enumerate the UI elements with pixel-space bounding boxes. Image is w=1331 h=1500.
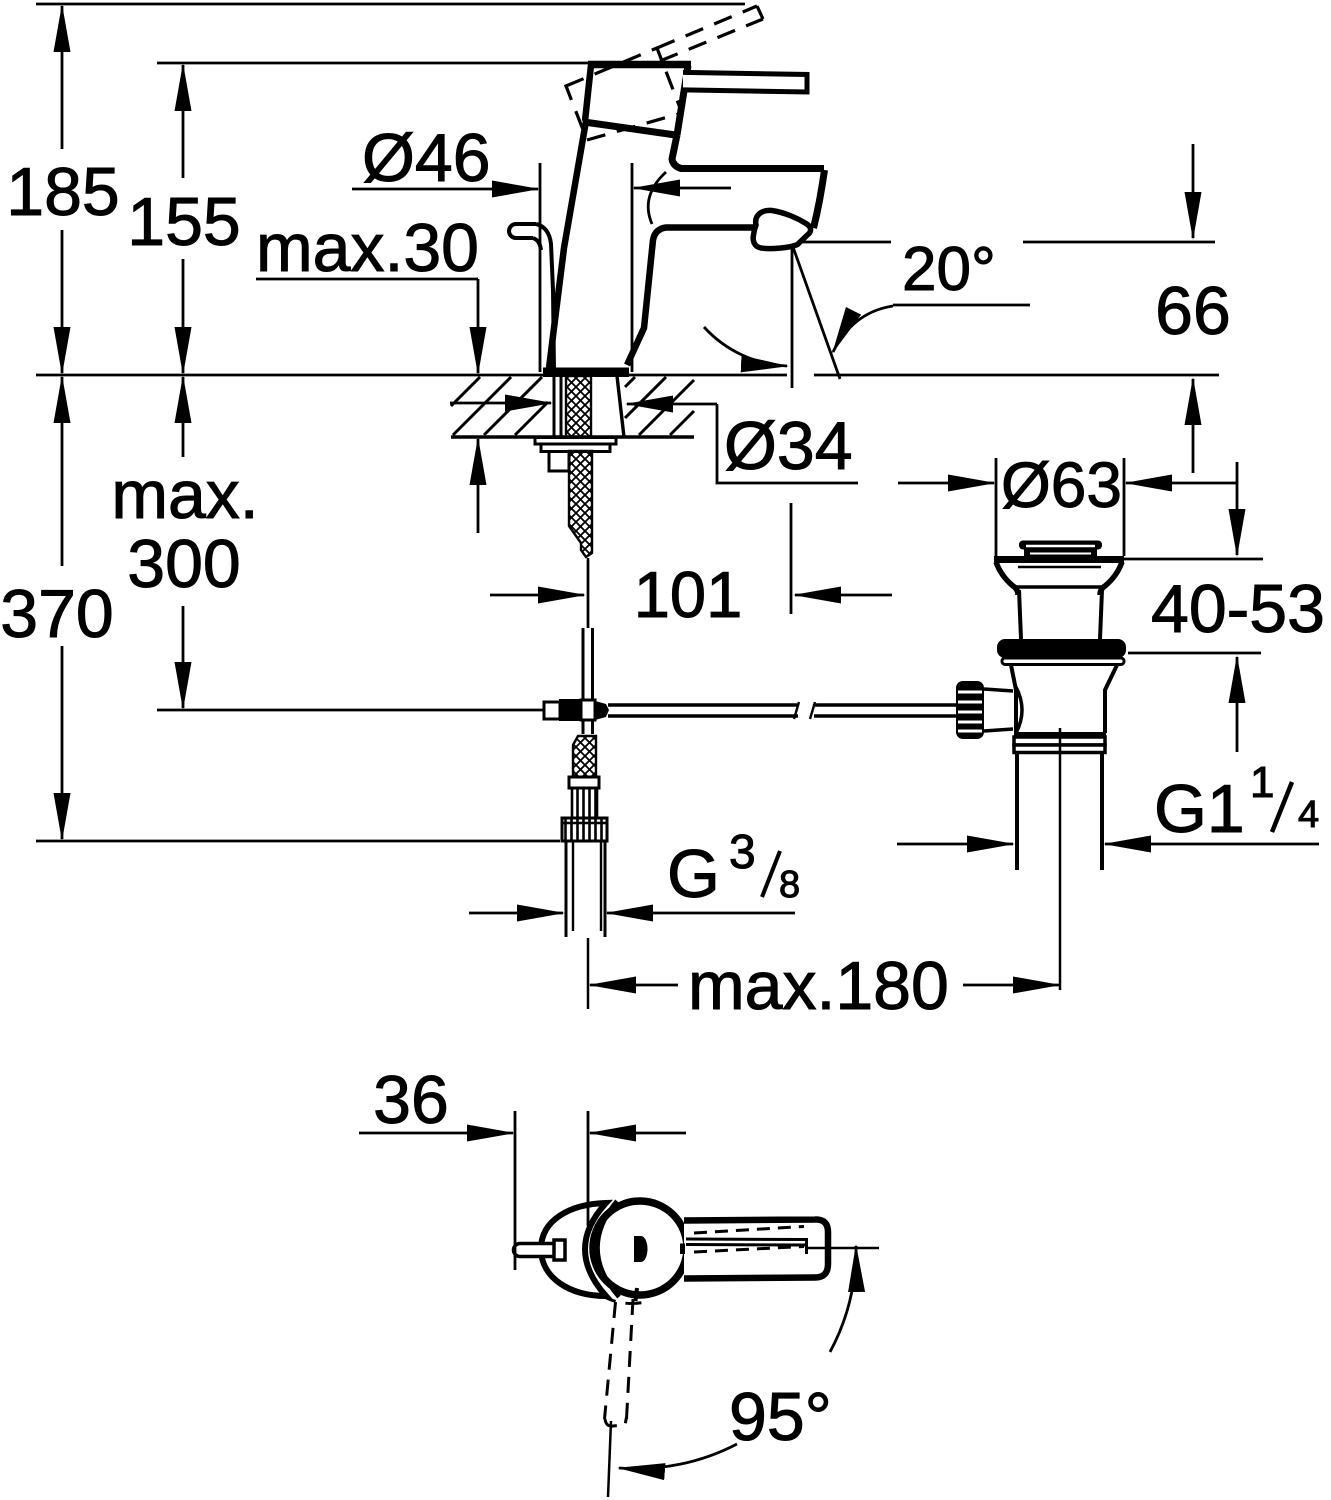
- supply pipe below nut: [566, 841, 605, 1009]
- horizontal pop-up rod left part: [608, 702, 799, 719]
- svg-text:20°: 20°: [902, 235, 996, 304]
- top view body: [541, 1203, 606, 1296]
- faucet body right edge and spout top: [672, 135, 825, 228]
- svg-text:8: 8: [779, 864, 800, 906]
- drain tail pipe: [1017, 728, 1102, 990]
- pop-up waste push button: [1019, 541, 1102, 558]
- rubber seal ring: [997, 639, 1126, 658]
- hose end reference line: [157, 709, 544, 712]
- svg-text:95°: 95°: [729, 1379, 832, 1455]
- svg-text:max.: max.: [111, 457, 258, 533]
- svg-text:3: 3: [729, 826, 756, 879]
- hose center line: [587, 560, 590, 628]
- dimension diameter 34: [450, 403, 858, 484]
- lever handle side view: [683, 72, 807, 92]
- lever center line extension: [608, 1248, 879, 1497]
- braided flex hose below deck: [569, 451, 592, 557]
- dimension diameter 46: [352, 120, 731, 372]
- top view lever: [684, 1219, 828, 1278]
- faucet head cartridge housing: [584, 65, 691, 136]
- top view joint arc: [597, 1201, 619, 1297]
- dimension G 3/8: [469, 826, 800, 913]
- faucet body left edge: [549, 121, 586, 368]
- bottom reference line 370: [36, 840, 560, 843]
- mounting stud: [549, 452, 569, 472]
- dashed lever raised position: [566, 6, 763, 140]
- pull rod tube: [583, 628, 593, 734]
- dimension 155: [127, 65, 240, 373]
- pop-up rod knurled knob: [956, 681, 984, 739]
- svg-text:40-53: 40-53: [1151, 571, 1325, 647]
- dimension 95 degrees arc: [619, 1246, 856, 1469]
- faucet base flange on counter: [543, 368, 629, 378]
- pop-up waste neck: [1019, 590, 1102, 639]
- drain coupling rings: [1014, 737, 1105, 753]
- svg-text:4: 4: [1298, 794, 1319, 836]
- counter top line: [36, 374, 1219, 377]
- pull rod knob above deck: [509, 224, 554, 370]
- pop-up valve body: [1011, 665, 1117, 734]
- spout root fillet curve: [648, 172, 666, 224]
- hose collar: [569, 777, 599, 788]
- deck cross-section hatched right block: [625, 377, 694, 435]
- dimension 101: [490, 503, 892, 631]
- reference line top of body 155: [157, 62, 592, 65]
- top view temperature pin: [514, 1240, 566, 1260]
- svg-text:1: 1: [1250, 758, 1274, 807]
- svg-text:G: G: [667, 836, 720, 912]
- top view lever inner lines: [686, 1227, 807, 1255]
- hose knurled coupling: [572, 788, 597, 818]
- knob to body connector: [984, 689, 1013, 731]
- svg-text:Ø34: Ø34: [724, 408, 853, 484]
- dimension G1 1/4: [897, 758, 1319, 847]
- svg-text:max.180: max.180: [688, 948, 949, 1024]
- pull rod through deck: [554, 376, 561, 437]
- svg-text:max.30: max.30: [256, 210, 479, 286]
- dimension 185: [6, 6, 119, 373]
- svg-text:101: 101: [634, 558, 742, 631]
- dimension max.30 deck thickness: [256, 210, 479, 533]
- dimension 20 degrees spout angle: [704, 235, 1215, 388]
- pop-up waste top flange: [994, 560, 1124, 596]
- threaded shank cone right edge: [617, 376, 624, 437]
- deck cross-section hatched left block: [451, 377, 548, 435]
- svg-text:66: 66: [1155, 273, 1231, 349]
- dimension max.300: [111, 377, 258, 708]
- aerator nozzle: [753, 210, 810, 248]
- svg-text:300: 300: [127, 526, 240, 602]
- G3/8 connection nut: [562, 818, 607, 841]
- svg-text:36: 36: [373, 1062, 449, 1138]
- braided hose through deck: [566, 376, 591, 437]
- flange ring under seal: [1002, 658, 1124, 665]
- dimension 40-53: [1117, 462, 1325, 752]
- horizontal pop-up rod right part: [810, 702, 958, 719]
- svg-text:370: 370: [0, 576, 113, 652]
- svg-text:Ø63: Ø63: [1001, 449, 1122, 521]
- dashed lever rotated 95 degrees: [601, 1295, 650, 1426]
- svg-text:Ø46: Ø46: [362, 120, 491, 196]
- spout underside and body lower right edge: [627, 228, 758, 366]
- pull rod junction fitting: [544, 699, 609, 721]
- dimension diameter 63: [898, 449, 1237, 556]
- deck bottom line: [451, 435, 694, 439]
- dimension 370: [0, 377, 113, 839]
- svg-text:G1: G1: [1154, 771, 1245, 847]
- svg-text:155: 155: [127, 184, 240, 260]
- dimension 36: [359, 1062, 686, 1270]
- reference line top of lever: [36, 3, 745, 6]
- mounting washer below deck: [535, 438, 616, 452]
- lower braided hose section: [573, 736, 596, 777]
- svg-text:185: 185: [6, 154, 119, 230]
- dimension max.180: [590, 948, 1059, 1024]
- top view cartridge cap circle: [593, 1201, 687, 1301]
- dimension 66: [1155, 144, 1231, 473]
- top view D mark: [634, 1236, 683, 1262]
